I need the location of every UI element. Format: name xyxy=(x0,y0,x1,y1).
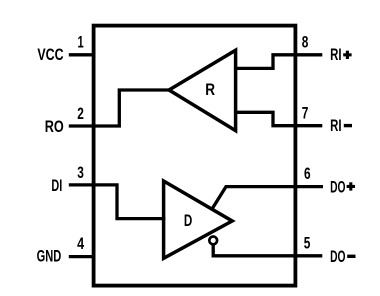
svg-text:RO: RO xyxy=(45,118,64,136)
plus sign of DO+ xyxy=(347,182,355,190)
svg-text:VCC: VCC xyxy=(37,46,63,64)
svg-text:6: 6 xyxy=(304,164,311,183)
pin 4 wire (GND) xyxy=(69,255,96,258)
svg-text:2: 2 xyxy=(77,104,84,123)
pin 5 wire (DO- from driver output B) xyxy=(213,245,322,256)
svg-text:R: R xyxy=(205,81,215,99)
svg-text:4: 4 xyxy=(77,234,84,253)
svg-text:RI: RI xyxy=(330,117,341,135)
driver op-amp D xyxy=(164,181,233,258)
pin 2 wire (RO to receiver output) xyxy=(69,90,169,126)
svg-text:DO: DO xyxy=(330,178,346,196)
svg-text:DI: DI xyxy=(51,177,62,195)
inversion bubble on driver output B xyxy=(209,237,217,245)
receiver op-amp R xyxy=(169,50,236,130)
pin 6 wire (DO+ from driver output A) xyxy=(212,187,323,210)
svg-text:D: D xyxy=(184,212,192,230)
svg-text:GND: GND xyxy=(37,248,62,266)
plus sign of RI+ xyxy=(343,51,351,59)
pin 3 wire (DI to driver input) xyxy=(69,185,166,219)
pin 1 wire (VCC) xyxy=(69,53,96,56)
svg-text:7: 7 xyxy=(302,104,309,123)
svg-text:RI: RI xyxy=(330,46,341,64)
pin 8 wire (RI+ to receiver input A) xyxy=(235,55,322,69)
svg-text:8: 8 xyxy=(302,33,309,52)
svg-text:3: 3 xyxy=(77,163,84,182)
minus sign of DO- xyxy=(347,255,355,258)
svg-text:DO: DO xyxy=(330,248,346,266)
svg-text:5: 5 xyxy=(304,234,311,253)
IC body U1 xyxy=(94,26,296,286)
svg-text:1: 1 xyxy=(78,33,84,52)
pin 7 wire (RI- to receiver input B) xyxy=(235,112,322,125)
minus sign of RI- xyxy=(344,124,352,127)
